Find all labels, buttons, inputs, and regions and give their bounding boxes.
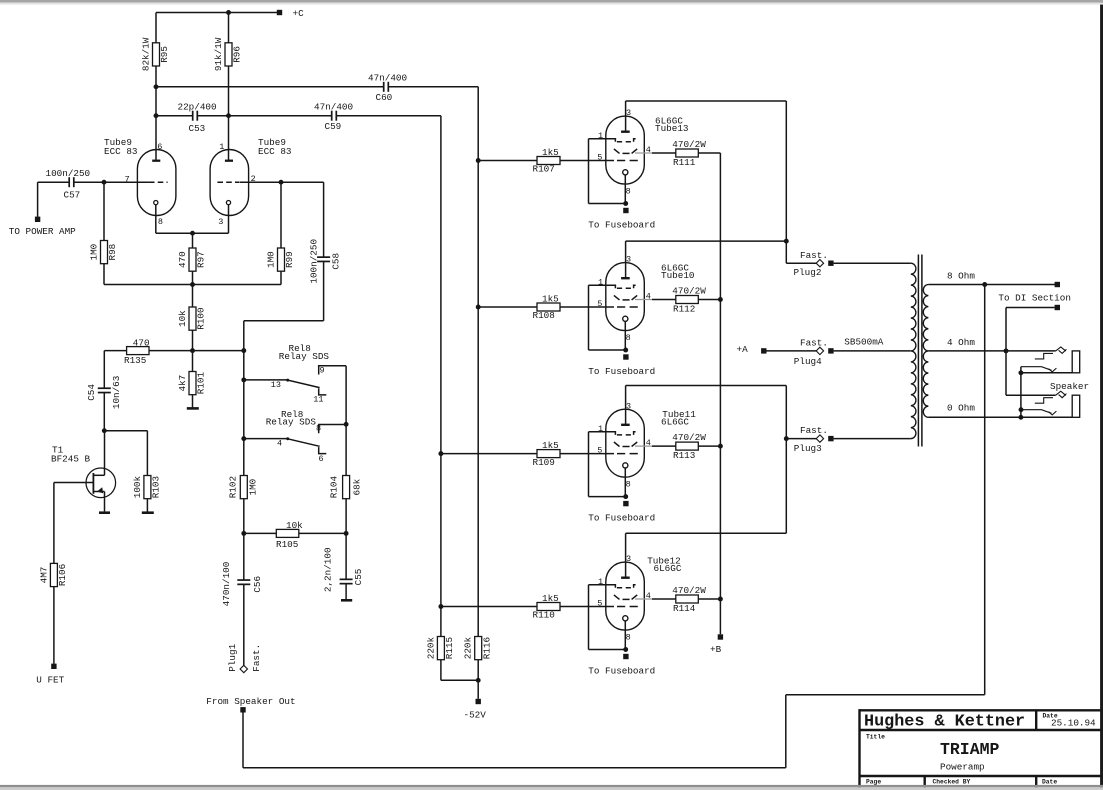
svg-text:Poweramp: Poweramp [940,761,985,772]
svg-text:470/2W: 470/2W [672,286,706,297]
svg-text:8 Ohm: 8 Ohm [947,270,975,281]
svg-text:11: 11 [313,394,323,404]
svg-text:22p/400: 22p/400 [178,102,217,113]
svg-text:68k: 68k [351,478,362,495]
svg-text:Fast.: Fast. [800,337,828,348]
svg-text:4: 4 [646,145,651,155]
svg-text:ECC 83: ECC 83 [104,146,137,157]
svg-text:1k5: 1k5 [542,147,559,158]
svg-text:C53: C53 [189,123,206,134]
svg-text:4: 4 [646,438,651,448]
svg-text:4: 4 [646,292,651,302]
svg-text:Checked BY: Checked BY [933,779,971,786]
svg-text:1k5: 1k5 [542,293,559,304]
svg-text:5: 5 [597,153,602,163]
svg-text:3: 3 [218,217,223,227]
svg-text:Page: Page [866,779,881,786]
svg-text:1: 1 [598,424,603,434]
svg-text:4: 4 [646,591,651,601]
svg-text:Fast.: Fast. [800,425,828,436]
svg-text:TRIAMP: TRIAMP [940,740,1000,759]
svg-text:R99: R99 [284,251,295,268]
svg-text:1: 1 [219,142,224,152]
svg-text:220k: 220k [425,637,436,660]
svg-text:100n/250: 100n/250 [46,168,91,179]
svg-text:8: 8 [626,480,631,490]
svg-text:C60: C60 [376,92,393,103]
svg-text:8: 8 [626,187,631,197]
svg-text:R102: R102 [227,476,238,498]
svg-text:R96: R96 [232,46,243,63]
svg-text:To Fuseboard: To Fuseboard [588,665,655,676]
svg-text:R112: R112 [673,304,695,315]
svg-text:10k: 10k [286,520,303,531]
svg-text:8: 8 [158,217,163,227]
svg-text:470/2W: 470/2W [672,139,706,150]
svg-text:4M7: 4M7 [38,567,49,584]
svg-text:R107: R107 [533,164,555,175]
svg-text:82k/1W: 82k/1W [141,37,152,71]
svg-text:8: 8 [316,424,321,434]
svg-text:To Fuseboard: To Fuseboard [588,219,655,230]
svg-text:Tube10: Tube10 [661,270,694,281]
svg-text:3: 3 [626,255,631,265]
svg-text:470: 470 [133,337,150,348]
svg-text:470/2W: 470/2W [672,432,706,443]
svg-text:+A: +A [737,344,749,355]
svg-text:5: 5 [597,299,602,309]
svg-text:100k: 100k [132,476,143,499]
svg-text:R108: R108 [533,310,555,321]
svg-text:R109: R109 [533,457,555,468]
svg-text:R135: R135 [124,355,146,366]
svg-text:R98: R98 [107,244,118,261]
svg-text:R105: R105 [276,539,298,550]
svg-text:1: 1 [598,277,603,287]
svg-text:25.10.94: 25.10.94 [1051,718,1096,729]
svg-text:470n/100: 470n/100 [221,562,232,607]
svg-text:BF245 B: BF245 B [51,454,90,465]
svg-text:Plug3: Plug3 [794,443,822,454]
svg-text:5: 5 [597,446,602,456]
svg-text:C57: C57 [64,189,81,200]
svg-text:ECC 83: ECC 83 [258,146,291,157]
svg-text:To Fuseboard: To Fuseboard [588,513,655,524]
svg-text:220k: 220k [463,637,474,660]
svg-text:+B: +B [710,644,722,655]
svg-text:Fast.: Fast. [800,250,828,261]
svg-text:Hughes & Kettner: Hughes & Kettner [864,713,1025,732]
svg-text:R95: R95 [159,46,170,63]
svg-text:4: 4 [277,439,282,449]
svg-text:R111: R111 [673,157,696,168]
svg-text:47n/400: 47n/400 [368,73,407,84]
svg-text:5: 5 [597,599,602,609]
svg-text:4k7: 4k7 [177,375,188,392]
svg-text:1M0: 1M0 [266,251,277,268]
svg-text:9: 9 [320,366,325,376]
svg-text:C54: C54 [86,384,97,401]
svg-text:91k/1W: 91k/1W [213,37,224,71]
svg-text:3: 3 [626,108,631,118]
svg-text:10n/63: 10n/63 [111,376,122,409]
svg-text:Title: Title [866,734,885,741]
svg-text:1M0: 1M0 [247,479,258,496]
svg-text:Date: Date [1042,779,1057,786]
svg-text:3: 3 [626,401,631,411]
svg-text:-52V: -52V [464,709,487,720]
svg-text:C55: C55 [353,569,364,586]
svg-text:To DI Section: To DI Section [998,293,1071,304]
svg-text:R106: R106 [57,564,68,586]
svg-text:C59: C59 [325,121,342,132]
svg-text:C58: C58 [330,253,341,270]
svg-text:47n/400: 47n/400 [314,101,353,112]
svg-text:R101: R101 [196,372,207,395]
svg-text:8: 8 [626,333,631,343]
svg-text:6: 6 [157,142,162,152]
svg-text:Plug2: Plug2 [794,267,822,278]
svg-text:Relay SDS: Relay SDS [266,416,317,427]
svg-text:From Speaker Out: From Speaker Out [206,696,295,707]
svg-text:U FET: U FET [36,675,64,686]
svg-text:R110: R110 [533,610,555,621]
svg-text:R115: R115 [444,637,455,659]
svg-text:2,2n/100: 2,2n/100 [323,547,334,592]
svg-text:1k5: 1k5 [542,440,559,451]
svg-text:6L6GC: 6L6GC [654,563,682,574]
svg-text:R113: R113 [673,450,695,461]
svg-text:8: 8 [626,633,631,643]
svg-text:R116: R116 [481,637,492,659]
svg-text:6L6GC: 6L6GC [661,417,689,428]
svg-text:Fast.: Fast. [251,644,262,672]
svg-text:R103: R103 [151,476,162,498]
svg-text:10k: 10k [177,310,188,327]
svg-text:R100: R100 [196,307,207,329]
svg-text:Plug1: Plug1 [227,643,238,671]
svg-text:Plug4: Plug4 [794,356,822,367]
svg-text:Tube13: Tube13 [655,123,688,134]
svg-text:SB500mA: SB500mA [844,336,883,347]
svg-text:Relay SDS: Relay SDS [279,351,330,362]
svg-text:1k5: 1k5 [542,593,559,604]
svg-text:C56: C56 [252,576,263,593]
svg-text:R97: R97 [196,251,207,268]
svg-text:470: 470 [177,251,188,268]
svg-text:13: 13 [271,380,281,390]
svg-text:R104: R104 [328,476,339,499]
svg-text:3: 3 [626,554,631,564]
svg-text:4 Ohm: 4 Ohm [947,337,975,348]
svg-text:0 Ohm: 0 Ohm [947,403,975,414]
svg-text:1M0: 1M0 [89,244,100,261]
svg-text:To Fuseboard: To Fuseboard [588,366,655,377]
svg-text:TO POWER AMP: TO POWER AMP [9,226,76,237]
svg-text:100n/250: 100n/250 [309,239,320,284]
svg-text:470/2W: 470/2W [672,585,706,596]
svg-text:R114: R114 [673,603,696,614]
svg-text:1: 1 [598,131,603,141]
svg-text:Speaker: Speaker [1050,381,1089,392]
svg-text:+C: +C [293,8,305,19]
svg-text:6: 6 [319,454,324,464]
svg-text:1: 1 [598,577,603,587]
